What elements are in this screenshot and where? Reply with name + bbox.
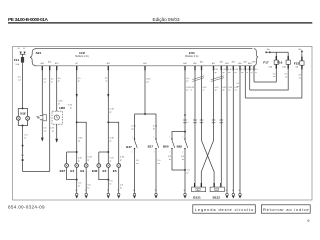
node switch feed split: [144, 113, 146, 115]
svg-text:30a: 30a: [298, 49, 302, 51]
svg-text:A57: A57: [244, 60, 247, 63]
wire pair loop bottom: [172, 149, 185, 170]
svg-text:A54: A54: [225, 62, 228, 65]
svg-text:sw: sw: [237, 86, 240, 88]
svg-text:br: br: [78, 184, 80, 187]
svg-text:0.35: 0.35: [146, 79, 151, 81]
svg-text:B62: B62: [177, 144, 183, 148]
wire A59 to F17: [254, 69, 276, 82]
svg-text:854.00-0324-09: 854.00-0324-09: [8, 205, 45, 210]
wire lamp pair bottom rail: [18, 120, 27, 125]
svg-text:0.35: 0.35: [78, 158, 83, 160]
node E4 bottom: [76, 179, 78, 181]
wire pair loop top: [172, 132, 185, 139]
svg-text:0.5: 0.5: [273, 73, 276, 75]
switch B47: [126, 137, 137, 153]
svg-text:30: 30: [23, 48, 25, 50]
svg-text:0.5: 0.5: [285, 74, 288, 76]
svg-text:E5: E5: [113, 169, 117, 173]
svg-text:30: 30: [18, 48, 20, 50]
node on E4 wire upper: [76, 121, 78, 123]
svg-text:31: 31: [85, 190, 87, 192]
pin A51: [200, 60, 203, 140]
svg-text:E4: E4: [70, 169, 74, 173]
twisted pair mark A50/A51: [192, 76, 204, 82]
wire E4 to terminal: [76, 167, 78, 193]
svg-text:sw: sw: [235, 90, 238, 92]
svg-text:gn: gn: [186, 90, 188, 92]
svg-text:0.5: 0.5: [18, 77, 22, 79]
schematic frame: [13, 47, 313, 201]
wire A58 to F16: [250, 69, 289, 90]
svg-text:0.5: 0.5: [110, 181, 114, 183]
svg-text:N18: N18: [20, 111, 26, 115]
svg-text:gr: gr: [58, 80, 60, 83]
svg-text:A41: A41: [143, 62, 146, 65]
terminal 30 (left b): [23, 48, 26, 54]
svg-text:0.35: 0.35: [190, 87, 194, 89]
svg-text:0.35: 0.35: [223, 87, 227, 89]
wire split rail to switches: [135, 114, 157, 139]
svg-text:ro: ro: [251, 72, 253, 74]
lamp E37: [60, 164, 69, 173]
svg-text:ro: ro: [255, 72, 257, 74]
svg-text:sw: sw: [44, 130, 47, 132]
svg-text:ws: ws: [44, 81, 46, 83]
wire route N18 to pin A31 wire: [23, 171, 50, 173]
connector B121: [192, 183, 206, 199]
arrow terminal H68 column: [55, 139, 58, 143]
svg-text:E37: E37: [60, 169, 66, 173]
svg-text:B121: B121: [193, 195, 201, 199]
svg-text:E9: E9: [80, 169, 84, 173]
svg-text:0.35: 0.35: [110, 109, 115, 111]
svg-text:ECM: ECM: [189, 52, 195, 55]
svg-text:gr: gr: [88, 159, 90, 162]
splice tick upper: [22, 145, 24, 147]
svg-text:0.5: 0.5: [44, 127, 48, 129]
wire F11 down: [22, 63, 24, 108]
svg-text:or: or: [190, 89, 192, 92]
svg-text:gr: gr: [78, 139, 80, 142]
lamp N18 right: [26, 116, 30, 120]
header rule: [8, 22, 312, 24]
pin A31: [48, 60, 51, 171]
svg-text:gn: gn: [186, 81, 188, 83]
pin A44: [183, 62, 186, 139]
svg-text:Retornar ao índice: Retornar ao índice: [263, 207, 309, 212]
svg-text:sw: sw: [285, 76, 288, 78]
pin A58: [248, 62, 251, 90]
wire E37 drop: [66, 152, 68, 164]
svg-text:B60: B60: [163, 144, 169, 148]
svg-text:gr: gr: [52, 130, 54, 133]
ground terminal under E9: [85, 190, 88, 199]
node E3 bottom: [107, 179, 109, 181]
wire 30a rail: [268, 51, 288, 53]
svg-text:gr: gr: [110, 139, 112, 142]
svg-text:B122: B122: [213, 195, 221, 199]
svg-text:1.0: 1.0: [187, 169, 191, 171]
node pair loop: [184, 131, 186, 133]
svg-text:gr: gr: [70, 107, 72, 110]
wire lamp pair top rail: [18, 108, 27, 116]
svg-text:B47: B47: [126, 145, 132, 149]
svg-text:Legenda deste circuito: Legenda deste circuito: [195, 207, 254, 212]
ground terminal under E5: [117, 190, 120, 199]
connector B122: [210, 183, 224, 199]
svg-text:31: 31: [107, 190, 109, 192]
svg-text:br: br: [187, 171, 189, 174]
pin A59: [252, 60, 255, 82]
svg-text:F16: F16: [277, 61, 283, 65]
svg-text:br: br: [51, 80, 53, 83]
svg-text:0.5: 0.5: [298, 75, 301, 77]
arrow terminal T6 column: [41, 138, 44, 142]
svg-text:A1: A1: [197, 188, 199, 191]
svg-text:0.5: 0.5: [51, 79, 54, 81]
wire B17 to terminal: [155, 149, 157, 194]
svg-text:0.35: 0.35: [203, 87, 207, 89]
svg-text:A50: A50: [193, 62, 196, 65]
wire lamp rail right: [99, 151, 109, 153]
switch B62: [177, 137, 188, 153]
node lamp pair join: [22, 125, 24, 127]
svg-text:gn: gn: [215, 72, 217, 74]
switch B60: [163, 137, 175, 153]
svg-text:A56: A56: [238, 62, 241, 65]
ground terminal under A55: [232, 190, 235, 199]
terminal 30a arrow: [266, 51, 269, 53]
connector ticks on A51 wire: [200, 120, 204, 123]
svg-text:0.35: 0.35: [215, 87, 219, 89]
connector ticks on pair feed: [183, 120, 189, 124]
svg-text:gr: gr: [110, 111, 112, 114]
svg-text:br: br: [88, 186, 90, 189]
svg-text:30a: 30a: [267, 49, 271, 51]
wire join of 30 terminals: [20, 54, 26, 57]
wire E9 to terminal: [85, 167, 87, 193]
svg-text:ws: ws: [105, 80, 107, 82]
svg-text:31: 31: [117, 190, 119, 192]
svg-text:0.35: 0.35: [68, 105, 73, 107]
lamp E3: [103, 164, 111, 173]
ground terminal under B17: [155, 190, 158, 199]
wire N18 down: [22, 126, 24, 172]
pin A7: [76, 62, 78, 164]
lamp H68: [52, 106, 65, 124]
svg-text:A7: A7: [76, 62, 78, 65]
wire E36 drop: [98, 152, 100, 164]
svg-text:31: 31: [75, 190, 77, 192]
svg-text:0.35: 0.35: [58, 101, 63, 103]
lamp E4: [70, 164, 78, 173]
svg-text:0.5: 0.5: [78, 78, 81, 80]
node on E3 wire at lamp rail: [107, 151, 109, 153]
svg-text:0.5: 0.5: [24, 134, 28, 136]
wire drop to F16: [287, 52, 289, 56]
ground terminal under A54: [226, 190, 229, 199]
svg-text:F17: F17: [263, 61, 269, 65]
fuse F23: [294, 57, 304, 70]
svg-text:sw: sw: [299, 77, 302, 79]
svg-text:A59: A59: [252, 60, 255, 63]
svg-text:0.35: 0.35: [131, 126, 136, 128]
svg-text:31: 31: [239, 190, 241, 192]
svg-text:sw: sw: [228, 72, 231, 74]
ECU pin stubs: [42, 66, 255, 71]
svg-text:sw: sw: [146, 82, 149, 84]
wire drop to F17: [275, 52, 277, 56]
svg-text:0.35: 0.35: [88, 157, 93, 159]
svg-text:2: 2: [169, 151, 170, 153]
svg-text:br: br: [169, 158, 171, 161]
pin A53: [220, 60, 223, 183]
lamp E36: [92, 164, 101, 173]
svg-text:br: br: [120, 186, 122, 189]
svg-text:sw: sw: [136, 163, 139, 165]
switch B17: [148, 137, 159, 153]
svg-text:2: 2: [153, 151, 154, 153]
ground terminal under E3: [107, 190, 110, 199]
svg-text:gr: gr: [78, 160, 80, 162]
lamp E9: [80, 164, 88, 173]
button retornar: [261, 205, 310, 213]
twisted pair mark A52/A53: [211, 76, 224, 82]
svg-text:A44: A44: [183, 62, 186, 65]
svg-text:br: br: [24, 136, 26, 139]
svg-text:a: a: [188, 122, 190, 124]
svg-text:S24: S24: [36, 51, 42, 55]
svg-text:0.5: 0.5: [44, 79, 47, 81]
ECU box J623: [35, 49, 253, 66]
svg-text:A53: A53: [220, 60, 223, 63]
node pair join: [184, 169, 186, 171]
connector ticks on A52 wire: [212, 120, 216, 123]
svg-text:F11: F11: [14, 58, 19, 62]
splice dot on pair feed: [184, 114, 186, 116]
wire A51 crossing to B122: [202, 141, 215, 184]
svg-text:31: 31: [226, 190, 228, 192]
svg-text:0.5: 0.5: [168, 156, 172, 158]
svg-text:A55: A55: [232, 60, 235, 63]
svg-text:T6: T6: [36, 115, 40, 119]
svg-text:1: 1: [132, 137, 133, 139]
svg-text:B17: B17: [148, 144, 154, 148]
svg-text:gr: gr: [78, 80, 80, 83]
svg-text:Módulo d Inj: Módulo d Inj: [185, 56, 199, 58]
node on E3 wire upper: [107, 121, 109, 123]
pin A50: [193, 62, 196, 183]
splice tick lower: [22, 159, 24, 161]
wire A52 crossing to B121: [201, 141, 213, 184]
pin A30: [41, 62, 44, 114]
svg-text:A31: A31: [48, 60, 51, 63]
svg-text:9: 9: [307, 218, 310, 223]
svg-text:31: 31: [133, 190, 135, 192]
pin A52: [212, 62, 215, 140]
svg-text:0.35: 0.35: [153, 126, 158, 128]
ground terminal under E4: [75, 190, 78, 199]
wire B62 to terminal: [184, 149, 186, 194]
connector ticks on A53 wire: [220, 120, 224, 123]
wire H68 down: [56, 124, 58, 138]
svg-text:Edição 05/03: Edição 05/03: [153, 17, 180, 22]
flow arrow on A7 wire: [76, 94, 78, 98]
svg-text:31: 31: [232, 190, 234, 192]
svg-text:0.35: 0.35: [228, 87, 232, 89]
pin A12: [107, 62, 110, 164]
svg-text:E36: E36: [92, 169, 98, 173]
svg-text:gn: gn: [215, 90, 217, 92]
terminal 30a at F23: [298, 49, 303, 57]
svg-text:A51: A51: [200, 60, 203, 63]
svg-text:1: 1: [153, 137, 154, 139]
wire A57 to F23: [245, 70, 302, 99]
svg-text:sw: sw: [157, 163, 160, 165]
svg-text:sw: sw: [273, 76, 276, 78]
svg-text:sw: sw: [241, 72, 244, 74]
svg-text:0.5: 0.5: [105, 78, 108, 80]
svg-text:gr: gr: [120, 159, 122, 162]
pin A57: [244, 60, 247, 98]
fuse F16: [277, 56, 290, 69]
svg-text:1.0: 1.0: [21, 155, 25, 157]
ground terminal under A56: [239, 190, 242, 199]
node 30a: [269, 51, 271, 53]
svg-text:F23: F23: [294, 61, 300, 65]
svg-text:0.5: 0.5: [236, 83, 239, 85]
flow arrow on A12 wire: [107, 94, 109, 98]
ground terminal under B47: [133, 190, 136, 199]
svg-text:ECM: ECM: [79, 52, 85, 55]
pin A32: [55, 62, 58, 111]
pin A55: [232, 60, 235, 193]
pin A54: [225, 62, 228, 193]
svg-text:or: or: [203, 89, 205, 92]
svg-text:0.5: 0.5: [181, 156, 185, 158]
wire E3 to terminal: [107, 167, 109, 193]
svg-text:5A: 5A: [295, 65, 298, 68]
svg-text:0.5: 0.5: [88, 184, 92, 186]
svg-text:H68: H68: [59, 106, 65, 110]
pin A41: [143, 62, 146, 114]
svg-text:gr: gr: [110, 160, 112, 162]
svg-text:1.0: 1.0: [136, 160, 140, 162]
fuse F17: [263, 56, 278, 69]
svg-text:A52: A52: [212, 62, 215, 65]
svg-text:A30: A30: [41, 62, 44, 65]
svg-text:sw: sw: [234, 72, 237, 74]
svg-text:gn: gn: [222, 72, 224, 74]
svg-text:31: 31: [184, 190, 186, 192]
svg-text:10A: 10A: [15, 63, 19, 66]
svg-text:sw: sw: [228, 90, 231, 92]
svg-text:2: 2: [132, 151, 133, 153]
wire T6 down: [41, 121, 43, 138]
brace left of ECU: [30, 49, 36, 66]
brace right of ECU: [254, 49, 258, 66]
svg-text:A32: A32: [55, 62, 58, 65]
svg-text:0.5: 0.5: [58, 78, 61, 80]
svg-text:Módulo d Inj: Módulo d Inj: [75, 56, 89, 58]
svg-text:10A: 10A: [268, 65, 272, 68]
ground terminal under B62: [184, 190, 187, 199]
connector ticks on A50 wire: [193, 120, 197, 123]
wire branch to E5: [108, 122, 118, 163]
svg-text:0.35: 0.35: [50, 128, 55, 130]
terminal 30 (left a): [18, 48, 22, 54]
wire lamp rail left: [67, 151, 77, 153]
svg-text:0.35: 0.35: [110, 137, 115, 139]
svg-text:0.35: 0.35: [120, 157, 125, 159]
svg-text:1.0: 1.0: [157, 160, 161, 162]
svg-text:gn: gn: [223, 90, 225, 92]
svg-text:A1: A1: [215, 188, 217, 191]
svg-text:bl: bl: [153, 129, 155, 131]
wire E5 to terminal: [118, 167, 120, 193]
svg-text:ro: ro: [246, 72, 248, 74]
node on E4 wire at lamp rail: [76, 151, 78, 153]
svg-text:10A: 10A: [282, 65, 286, 68]
svg-text:0.5: 0.5: [78, 182, 82, 184]
svg-text:E3: E3: [103, 169, 107, 173]
svg-text:0.35: 0.35: [78, 137, 83, 139]
svg-text:br: br: [182, 158, 184, 161]
pin A56: [238, 62, 241, 193]
svg-text:0.5: 0.5: [186, 78, 189, 80]
lamp E5: [113, 164, 121, 173]
lamp N18 left: [16, 116, 20, 120]
wire branch to E9: [77, 122, 87, 163]
svg-text:A58: A58: [248, 62, 251, 65]
svg-text:sw: sw: [18, 80, 21, 82]
svg-text:A12: A12: [107, 62, 110, 65]
svg-text:br: br: [110, 183, 112, 186]
svg-text:bl: bl: [58, 104, 60, 106]
connector T6: [36, 114, 46, 120]
wire B47 to terminal: [134, 149, 136, 194]
svg-text:2: 2: [182, 151, 183, 153]
svg-text:0.35: 0.35: [110, 158, 115, 160]
wire E37 bottom loop: [67, 167, 77, 179]
node lamp pair split: [22, 107, 24, 109]
svg-text:1: 1: [169, 137, 170, 139]
fuse F11: [14, 57, 24, 66]
svg-text:31: 31: [155, 190, 157, 192]
button legenda: [193, 205, 256, 213]
svg-text:1: 1: [182, 137, 183, 139]
wire E36 bottom loop: [99, 167, 109, 179]
svg-text:0.5: 0.5: [120, 184, 124, 186]
